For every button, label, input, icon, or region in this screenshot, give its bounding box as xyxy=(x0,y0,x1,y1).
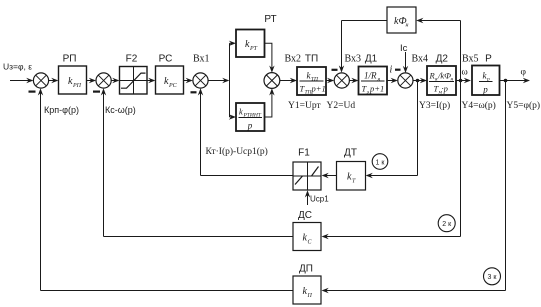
svg-text:Y4=ω(p): Y4=ω(p) xyxy=(462,100,496,111)
svg-text:Кт·I(p)-Ucp1(p): Кт·I(p)-Ucp1(p) xyxy=(206,146,268,157)
minus sign at S5 xyxy=(332,69,338,71)
block D1 armature circuit xyxy=(359,67,388,95)
wire S6 to D2 xyxy=(413,80,425,82)
wire D2 to R with omega label xyxy=(456,80,469,82)
block D2 mechanical part xyxy=(427,66,456,95)
block TP thyristor converter xyxy=(297,67,326,95)
svg-text:Крп-φ(p): Крп-φ(p) xyxy=(44,105,79,115)
wire kFn out down to S5 xyxy=(342,20,388,22)
wire R output phi xyxy=(500,80,528,82)
block F2 saturation nonlinearity xyxy=(120,67,148,95)
summing junction S1 xyxy=(33,73,48,88)
block DP position sensor xyxy=(293,276,321,304)
svg-text:1/R: 1/R xyxy=(364,71,377,81)
svg-text:р: р xyxy=(486,77,490,83)
wire DS out to S2 bottom xyxy=(104,236,294,238)
block DS speed sensor xyxy=(293,223,321,251)
svg-text:k: k xyxy=(239,107,243,117)
minus sign at S1 xyxy=(29,90,36,92)
block RP (regulator polozheniya) xyxy=(59,66,87,94)
svg-text:·p: ·p xyxy=(442,84,448,94)
wire Ucp1 input xyxy=(307,193,309,205)
wire DP out to S1 bottom xyxy=(41,290,294,292)
svg-text:РТ: РТ xyxy=(264,14,276,25)
wire input Uz xyxy=(10,80,31,82)
wire S4 to TP xyxy=(280,80,295,82)
svg-text:н: н xyxy=(451,77,454,83)
wire position feedback from phi dot down xyxy=(505,81,507,291)
svg-text:Ic: Ic xyxy=(400,43,408,54)
block F1 dead-zone nonlinearity xyxy=(293,162,321,190)
wire TP to S5 xyxy=(326,80,332,82)
block RT proportional (k_RT) xyxy=(236,30,265,58)
wire DT to F1 xyxy=(324,175,337,177)
svg-text:Вх2: Вх2 xyxy=(285,54,302,65)
svg-text:н: н xyxy=(406,23,409,29)
block R integrator (k_r/p) xyxy=(472,66,500,96)
wire RTINT out to S4 bottom xyxy=(265,91,272,117)
svg-text:p: p xyxy=(482,85,488,95)
wire speed feedback from omega dot down xyxy=(460,81,462,237)
svg-text:p+1: p+1 xyxy=(369,84,384,94)
wire RP to S2 xyxy=(87,80,94,82)
svg-text:Вх1: Вх1 xyxy=(193,54,210,65)
junction dot phi branch xyxy=(504,79,508,83)
svg-text:Р: Р xyxy=(485,54,492,65)
summing junction S4 xyxy=(264,73,280,89)
svg-text:Uз=φ, ε: Uз=φ, ε xyxy=(3,62,32,72)
svg-text:Д1: Д1 xyxy=(365,54,378,65)
svg-text:Вх5: Вх5 xyxy=(462,54,479,65)
summing junction S3 Bx1 xyxy=(193,73,208,88)
svg-text:Y3=I(p): Y3=I(p) xyxy=(419,100,450,111)
wire S3 to branch point xyxy=(208,80,227,82)
svg-text:РП: РП xyxy=(63,54,77,65)
svg-text:ТП: ТП xyxy=(305,54,318,65)
wire branch vertical xyxy=(229,43,231,117)
summing junction S5 Bx3 xyxy=(334,73,349,88)
svg-text:РП: РП xyxy=(72,83,82,89)
svg-text:/kФ: /kФ xyxy=(437,71,451,81)
svg-text:F2: F2 xyxy=(126,54,138,65)
svg-text:РС: РС xyxy=(159,54,173,65)
wire RS to S3 xyxy=(184,80,191,82)
marker circle 3k xyxy=(484,268,501,285)
summing junction S6 Bx4 xyxy=(398,73,413,88)
svg-text:2 к: 2 к xyxy=(442,221,452,228)
svg-text:Кс-ω(p): Кс-ω(p) xyxy=(105,105,136,115)
svg-text:F1: F1 xyxy=(298,148,310,159)
wire F1 out to S3 bottom xyxy=(201,175,294,177)
svg-text:ω: ω xyxy=(462,68,468,78)
wire current feedback down from dot xyxy=(417,81,419,176)
svg-text:3 к: 3 к xyxy=(488,274,498,281)
wire RT out to S4 top xyxy=(265,43,272,70)
wire S1 to RP xyxy=(49,80,56,82)
wire D1 to S6, label i xyxy=(387,80,395,82)
junction dot after S6 xyxy=(416,79,420,83)
svg-text:РТ: РТ xyxy=(249,46,258,52)
minus sign at S3 xyxy=(191,91,197,93)
svg-text:Y5=φ(p): Y5=φ(p) xyxy=(507,100,541,111)
svg-text:Д2: Д2 xyxy=(436,54,449,65)
svg-text:РС: РС xyxy=(168,83,178,89)
svg-text:ДП: ДП xyxy=(299,264,313,275)
wire Ic input xyxy=(405,52,407,71)
wire S2 to F2 xyxy=(111,80,117,82)
svg-text:Y1=Uрт: Y1=Uрт xyxy=(288,101,321,111)
wire S5 to D1 xyxy=(349,80,356,82)
wire F2 to RS xyxy=(147,80,153,82)
block kFn (k*Phi_n) xyxy=(387,7,416,33)
block RS (regulator skorosti) xyxy=(156,66,184,94)
svg-text:П: П xyxy=(307,293,313,299)
minus sign at S6 xyxy=(395,69,401,71)
svg-text:1 к: 1 к xyxy=(376,159,386,166)
svg-text:ТП: ТП xyxy=(311,77,319,83)
block RTINT integral (k_RTINT / p) xyxy=(236,103,265,131)
svg-text:i: i xyxy=(390,65,393,76)
svg-text:я: я xyxy=(377,77,381,83)
svg-text:φ: φ xyxy=(521,68,527,78)
wire branch to RT xyxy=(230,42,234,44)
svg-text:Y2=Ud: Y2=Ud xyxy=(327,101,356,111)
svg-text:ДТ: ДТ xyxy=(344,148,357,159)
svg-text:p+1: p+1 xyxy=(311,84,326,94)
svg-text:Ucp1: Ucp1 xyxy=(310,194,329,203)
marker circle 2k xyxy=(438,215,455,232)
minus sign at S2 xyxy=(93,90,100,92)
block DT current sensor xyxy=(337,162,366,191)
summing junction S2 xyxy=(96,73,111,88)
svg-text:Вх3: Вх3 xyxy=(345,54,362,65)
svg-text:ДС: ДС xyxy=(298,210,312,221)
wire branch to RTINT xyxy=(230,116,234,118)
svg-text:p: p xyxy=(247,121,253,131)
svg-text:Вх4: Вх4 xyxy=(412,54,429,65)
marker circle 1k xyxy=(372,154,388,170)
svg-text:РТИНТ: РТИНТ xyxy=(243,113,262,119)
wire omega branch up to kFn xyxy=(460,21,462,81)
junction dot omega branch xyxy=(459,79,463,83)
